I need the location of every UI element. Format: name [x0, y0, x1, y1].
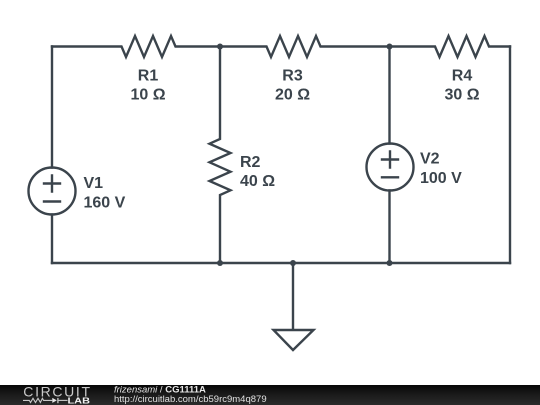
svg-text:30 Ω: 30 Ω: [444, 87, 479, 104]
svg-text:R1: R1: [138, 68, 159, 85]
svg-text:20 Ω: 20 Ω: [275, 87, 310, 104]
svg-text:LAB: LAB: [68, 395, 91, 405]
svg-text:V1: V1: [84, 175, 104, 192]
svg-text:160 V: 160 V: [84, 195, 126, 212]
svg-text:R4: R4: [452, 68, 473, 85]
svg-text:http://circuitlab.com/cb59rc9m: http://circuitlab.com/cb59rc9m4q879: [114, 394, 267, 405]
svg-text:V2: V2: [420, 151, 440, 168]
svg-text:100 V: 100 V: [420, 170, 462, 187]
svg-text:R2: R2: [240, 154, 261, 171]
svg-text:10 Ω: 10 Ω: [130, 87, 165, 104]
svg-text:40 Ω: 40 Ω: [240, 173, 275, 190]
svg-text:R3: R3: [282, 68, 303, 85]
